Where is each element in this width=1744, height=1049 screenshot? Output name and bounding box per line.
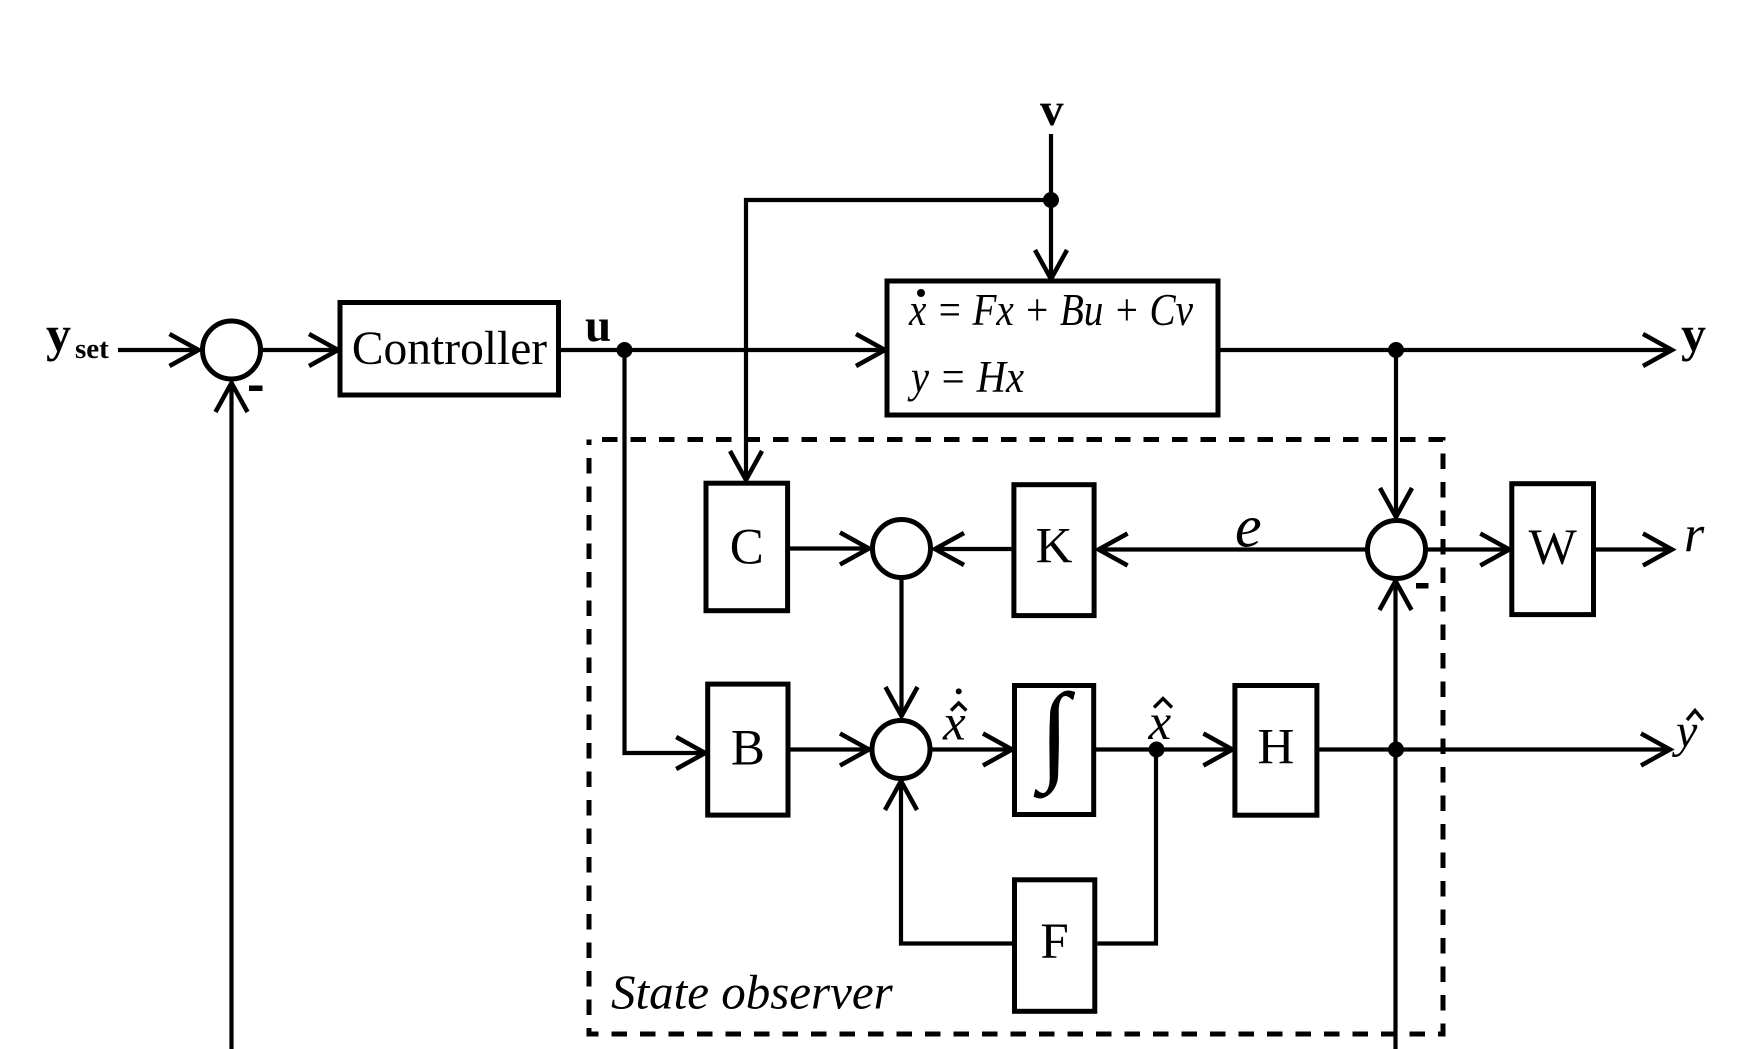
hat accent of xhatdot [951,703,966,711]
svg-text:W: W [1529,520,1578,576]
arrowhead feedback into sum1 [216,383,248,412]
wire Controller to plant with node u [559,348,884,352]
block F [1015,880,1095,1012]
wire v input [1049,134,1053,277]
arrowhead to yhat label [1641,734,1670,766]
summing junction sum2 [1368,521,1426,579]
block C [706,483,788,611]
wire W to r output [1596,547,1670,551]
wire yhat branch down feedback [1393,750,1397,1049]
svg-text:y = Hx: y = Hx [907,352,1024,402]
wire sum1 to Controller [261,348,337,352]
wire sum1obs down to sum3 [899,578,903,715]
wire e from sum2 to K [1100,547,1368,551]
hat accent of yhat [1687,711,1703,721]
svg-text:∫: ∫ [1033,671,1075,799]
block H [1235,686,1317,816]
svg-text:y: y [1681,306,1706,362]
svg-text:B: B [731,720,765,776]
arrowhead C into sum1obs [840,533,869,565]
arrowhead B into sum3 [840,734,869,766]
dot accent of xdot in plant [917,289,925,297]
arrowhead to r label [1643,534,1672,566]
node yhat junction dot [1388,742,1404,758]
wire integrator to H with node xhat [1096,747,1230,751]
svg-text:F: F [1040,914,1068,970]
svg-text:Controller: Controller [352,323,547,375]
arrowhead into W [1480,534,1509,566]
arrowhead e into K [1099,534,1128,566]
wire K to sum1obs [937,547,1011,551]
block B [708,684,788,815]
block Controller [340,303,559,396]
block W [1512,484,1594,615]
svg-text:y: y [46,306,71,362]
wire y branch down to sum2 [1394,350,1398,515]
node v junction dot [1043,192,1059,208]
arrowhead K into sum1obs [935,533,964,565]
arrowhead into H [1203,734,1232,766]
wire plant to y output [1218,348,1670,352]
svg-text:r: r [1684,507,1705,564]
block plant [887,281,1218,415]
arrowhead into sum1 [170,334,199,366]
arrowhead to y label [1643,334,1672,366]
svg-text:H: H [1257,720,1294,776]
svg-text:x = Fx + Bu + Cv: x = Fx + Bu + Cv [908,285,1193,335]
node y junction dot [1388,342,1404,358]
node u junction dot [617,342,633,358]
arrowhead u into B [676,737,705,769]
arrowhead into sum2 from top [1380,488,1412,517]
wire C to sum1obs [789,546,867,550]
svg-text:v: v [1040,84,1064,136]
svg-text:State observer: State observer [611,965,894,1020]
block integrator [1015,686,1094,815]
summing junction sum3 [872,721,930,779]
wire v branch to C [746,200,1051,478]
observer dashed box [589,440,1443,1035]
dot accent of xhatdot [956,688,962,694]
hat accent of xhat [1154,699,1172,708]
arrowhead F into sum3 [885,781,917,810]
arrowhead into plant [856,334,885,366]
wire H to yhat output [1319,747,1668,751]
summing junction sum1obs [873,520,931,578]
wire feedback up to sum1 [229,385,233,1049]
wire yset to sum1 [118,348,196,352]
arrowhead sum3 into integrator [983,734,1012,766]
arrowhead sum1obs into sum3 [886,687,918,716]
arrowhead v into C [730,451,762,480]
summing junction sum1 [203,321,261,379]
node xhat junction dot [1149,742,1165,758]
minus sign at sum2 [1416,583,1429,589]
wire sum2 to W [1426,547,1508,551]
wire sum3 to integrator [930,747,1010,751]
svg-text:K: K [1036,519,1073,575]
svg-text:u: u [585,300,611,352]
wire yhat branch up to sum2 [1393,583,1397,750]
arrowhead v into plant [1035,250,1067,279]
wire xhat feedback to F [1097,750,1156,944]
wire u branch down to B [625,350,704,753]
minus sign at sum1 [249,386,263,392]
svg-text:C: C [730,520,764,576]
arrowhead into Controller [309,334,338,366]
svg-text:x: x [942,696,966,752]
wire F to sum3 [901,783,1012,944]
svg-text:set: set [75,333,109,365]
wire B to sum3 [791,747,868,751]
block K [1014,485,1094,616]
svg-text:e: e [1235,494,1262,560]
arrowhead into sum2 from bottom [1380,581,1412,610]
